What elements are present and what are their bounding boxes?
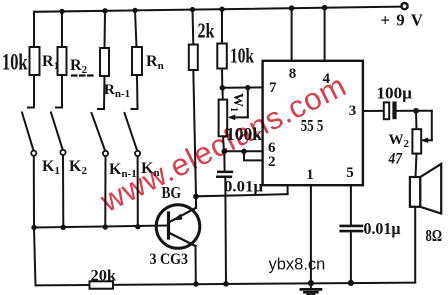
switch K2: [51, 113, 63, 151]
resistor 2k: [192, 10, 195, 45]
node dots pin6 wire: [222, 149, 247, 155]
node dots on bottom bus: [193, 280, 354, 287]
svg-text:8: 8: [289, 66, 297, 82]
wire pin 1 to ground bus: [310, 185, 312, 283]
wire to pin 6: [224, 150, 263, 152]
wire switch common bus to transistor base: [34, 226, 168, 228]
node dots on switch bus: [31, 224, 140, 230]
switch K1: [22, 113, 34, 151]
svg-text:0.01µ: 0.01µ: [364, 219, 401, 238]
node output junction: [413, 108, 419, 114]
node wiper tie: [245, 85, 250, 90]
svg-text:Rn-1: Rn-1: [104, 82, 130, 100]
svg-text:W2: W2: [389, 132, 410, 150]
svg-text:2k: 2k: [198, 19, 215, 43]
transistor Q1 BG 3CG3: [156, 205, 200, 249]
speaker LS 8 ohm: [410, 177, 420, 207]
capacitor C2 0.01u (pin 5): [350, 185, 352, 224]
switch Kn: [125, 113, 138, 151]
resistor 20k (bottom): [90, 281, 114, 288]
svg-text:0.01µ: 0.01µ: [224, 178, 263, 195]
resistor Rn: [135, 10, 137, 47]
op-amp U1 555 timer box: [263, 61, 363, 185]
svg-text:ybx8.cn: ybx8.cn: [269, 256, 326, 274]
svg-text:+ 9 V: + 9 V: [381, 11, 425, 30]
node junction dots on top bus: [59, 5, 327, 14]
node pin7 junction: [220, 85, 226, 91]
resistor Rn-1: [104, 11, 107, 48]
wire top supply bus: [34, 7, 404, 12]
wire to pin 2: [244, 151, 263, 160]
svg-text:3: 3: [349, 103, 357, 119]
svg-text:7: 7: [269, 80, 277, 96]
ground: [310, 283, 312, 288]
capacitor C1 0.01u (left): [223, 151, 225, 170]
wire pin 4 to bus: [324, 8, 326, 61]
svg-text:10k: 10k: [2, 50, 28, 75]
svg-text:3 CG3: 3 CG3: [150, 251, 189, 268]
potentiometer W2 47: [416, 110, 432, 112]
terminal +9V: [401, 3, 407, 9]
node transistor collector junction: [193, 194, 199, 200]
capacitor C3 100u electrolytic: [384, 102, 389, 119]
wire to pin 7: [222, 86, 262, 88]
svg-text:20k: 20k: [91, 268, 117, 285]
wire left edge down: [34, 228, 36, 286]
switch Kn-1: [92, 113, 106, 151]
svg-text:W1: W1: [228, 93, 245, 112]
resistor R1 10k (leftmost): [33, 12, 35, 47]
wire pin 8 to bus: [291, 8, 293, 61]
potentiometer W1 100k: [222, 88, 224, 100]
wire bottom ground bus: [36, 283, 416, 286]
wire pin 3 output: [363, 110, 384, 112]
wire transistor node to 555 lower edge: [196, 194, 288, 196]
svg-text:100µ: 100µ: [377, 83, 413, 102]
svg-text:1: 1: [306, 167, 314, 183]
svg-text:8Ω: 8Ω: [426, 226, 443, 245]
svg-text:5: 5: [346, 165, 354, 181]
resistor 10k (right): [221, 9, 223, 43]
svg-text:K1: K1: [42, 158, 60, 177]
svg-text:2: 2: [268, 154, 276, 170]
svg-text:Rn: Rn: [146, 53, 164, 72]
svg-text:10k: 10k: [230, 44, 254, 68]
svg-text:47: 47: [388, 151, 403, 168]
svg-text:K2: K2: [69, 158, 87, 177]
resistor R2: [61, 11, 63, 47]
svg-text:R2: R2: [70, 57, 88, 76]
wire dashes between R2 and Rn-1: [72, 74, 93, 76]
